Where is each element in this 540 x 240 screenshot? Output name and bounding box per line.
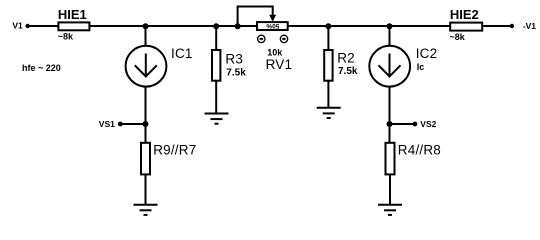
node VS1 — [99, 119, 123, 129]
resistor HIE1 — [58, 7, 90, 30]
wire R3 top — [215, 26, 217, 50]
ground (below R9//R7) — [134, 205, 158, 215]
resistor R3 — [212, 50, 243, 81]
RV1 increase button — [280, 35, 287, 42]
svg-text:hfe ~ 220: hfe ~ 220 — [22, 63, 61, 73]
svg-text:V1: V1 — [12, 21, 23, 31]
junction R2 top — [325, 23, 331, 29]
junction IC2 top — [387, 23, 393, 29]
svg-text:7.5k: 7.5k — [338, 66, 358, 77]
resistor R9//R7 — [141, 143, 196, 175]
current source IC2 — [369, 46, 437, 87]
wire VS2 stub — [390, 123, 415, 125]
value label ~8k (HIE1) — [58, 32, 74, 42]
svg-text:IC1: IC1 — [171, 46, 193, 61]
svg-text:R2: R2 — [337, 51, 355, 66]
svg-text:IC2: IC2 — [416, 46, 438, 61]
svg-text:VS1: VS1 — [99, 119, 115, 129]
wire main horizontal bus V1 to -V1 — [28, 25, 512, 27]
resistor HIE2 — [450, 7, 482, 30]
svg-text:~8k: ~8k — [450, 32, 466, 42]
svg-text:~8k: ~8k — [58, 32, 74, 42]
ground (below R2) — [317, 108, 341, 118]
svg-text:RV1: RV1 — [266, 57, 293, 72]
junction VS1 — [143, 121, 149, 127]
annotation hfe ~ 220 — [22, 63, 61, 73]
node -V1 — [510, 21, 537, 31]
wire IC2 bottom to VS2 junction — [389, 87, 391, 143]
junction IC1 top — [143, 23, 149, 29]
resistor R4//R8 — [386, 143, 442, 175]
svg-text:R3: R3 — [225, 51, 243, 66]
svg-text:50%: 50% — [266, 22, 279, 29]
svg-text:VS2: VS2 — [420, 119, 436, 129]
node V1 — [12, 21, 29, 31]
svg-text:R4//R8: R4//R8 — [398, 143, 441, 158]
node VS2 — [413, 119, 437, 129]
RV1 decrease button — [258, 35, 265, 42]
wire R2 to ground — [327, 81, 329, 108]
svg-text:Ic: Ic — [417, 62, 425, 72]
svg-text:R9//R7: R9//R7 — [153, 143, 196, 158]
wire IC1 top — [145, 26, 147, 46]
current source IC1 — [126, 46, 193, 87]
resistor R2 — [324, 50, 355, 81]
junction VS2 — [387, 121, 393, 127]
svg-text:HIE1: HIE1 — [58, 7, 87, 22]
wire IC2 top — [389, 26, 391, 46]
wire R9//R7 to ground — [145, 174, 147, 204]
wire VS1 stub — [120, 123, 145, 125]
ground (below R4//R8) — [378, 205, 402, 215]
junction R3 top — [213, 23, 219, 29]
svg-text:-V1: -V1 — [523, 21, 537, 31]
wire IC1 bottom to VS1 junction — [145, 87, 147, 143]
wire R2 top — [327, 26, 329, 50]
junction RV1 wiper node — [235, 23, 241, 29]
wire R4//R8 to ground — [389, 174, 391, 204]
svg-text:HIE2: HIE2 — [450, 7, 479, 22]
wire RV1 wiper loop — [238, 7, 277, 27]
svg-text:7.5k: 7.5k — [226, 67, 246, 78]
ground (below R3) — [205, 114, 229, 124]
potentiometer RV1 — [257, 22, 288, 30]
wire R3 to ground — [215, 81, 217, 114]
